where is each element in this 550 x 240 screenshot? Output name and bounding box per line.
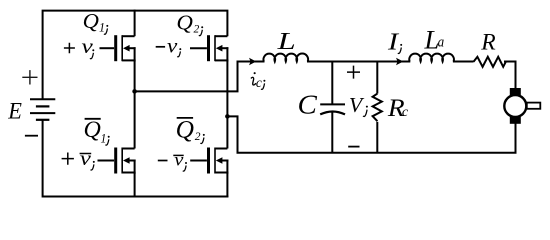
inductor La — [409, 54, 454, 62]
wire capacitor top lead — [331, 62, 333, 104]
wire battery bottom lead and bottom rail — [43, 120, 229, 196]
wire La to R — [453, 61, 474, 63]
resistor R zigzag — [474, 57, 506, 67]
svg-text:Q: Q — [83, 10, 100, 33]
svg-text:c: c — [402, 104, 408, 119]
svg-text:L: L — [423, 25, 439, 55]
label -v_j-bar minus sign — [158, 160, 168, 162]
svg-text:Q: Q — [176, 115, 194, 143]
battery E plate long — [30, 112, 55, 114]
inductor L — [263, 54, 308, 62]
label Q2j sub j — [201, 26, 203, 28]
wire output node A to filter input — [135, 62, 265, 92]
label v_j-bar j (Q1j-bar) — [93, 161, 95, 163]
label Q2j-bar overline — [177, 117, 193, 119]
motor M brush bottom — [510, 117, 521, 124]
wire Rc bottom lead — [376, 122, 378, 153]
capacitor C top plate — [320, 103, 345, 105]
label v_j-bar overline (Q2j-bar) — [173, 154, 183, 156]
transistor Q1j-bar — [98, 148, 136, 174]
wire Rc top lead — [376, 62, 378, 94]
node B junction dot (right leg) — [225, 114, 230, 119]
wire right leg midline (Q2j source to Q2j-bar drain) — [226, 60, 228, 148]
arrow I_j — [396, 58, 403, 65]
transistor Q2j — [190, 35, 228, 61]
label v_j-bar j (Q2j-bar) — [185, 162, 187, 164]
svg-text:L: L — [276, 29, 295, 55]
label Q1j sub j — [106, 25, 108, 27]
svg-text:v: v — [174, 151, 184, 171]
motor M shaft — [527, 103, 541, 109]
wire L to La — [307, 61, 410, 63]
svg-text:V: V — [349, 93, 365, 117]
label Q1j-bar sub j — [108, 136, 110, 138]
resistor Rc zigzag — [373, 94, 382, 122]
svg-text:E: E — [7, 98, 22, 123]
battery plus sign — [22, 70, 37, 84]
arrow i_cj — [249, 58, 256, 65]
wire top rail with Q2j drain and battery top lead — [43, 11, 228, 99]
label V_j plus sign — [347, 66, 360, 79]
svg-text:1: 1 — [99, 21, 105, 35]
svg-text:I: I — [387, 28, 400, 55]
battery E plate short — [36, 105, 50, 107]
wire motor bottom return rail to node B — [226, 116, 515, 152]
svg-text:2: 2 — [194, 23, 200, 35]
wire capacitor bottom lead — [331, 112, 333, 153]
battery E plate short bottom — [36, 119, 50, 121]
svg-text:v: v — [167, 35, 178, 57]
svg-text:2: 2 — [195, 131, 201, 143]
label i_cj sub j — [263, 80, 265, 82]
label v_j j (Q1j) — [92, 49, 94, 51]
label +v_j-bar plus sign — [62, 153, 74, 165]
motor M body — [504, 95, 526, 117]
label -v_j minus sign — [156, 46, 165, 48]
label +v_j plus sign — [64, 43, 75, 53]
svg-text:Q: Q — [83, 117, 100, 143]
battery E plate long top — [30, 98, 55, 100]
svg-text:c: c — [256, 75, 262, 90]
label v_j j (Q2j) — [179, 48, 181, 50]
wire R to motor top — [504, 62, 516, 90]
svg-text:a: a — [438, 34, 445, 50]
svg-text:v: v — [81, 36, 93, 58]
node A junction dot (left leg) — [132, 89, 137, 94]
label v_j-bar overline (Q1j-bar) — [80, 153, 92, 155]
svg-text:v: v — [80, 147, 92, 170]
label Q2j-bar sub j — [203, 134, 205, 136]
svg-text:Q: Q — [176, 11, 193, 34]
battery minus sign — [25, 135, 38, 137]
transistor Q1j — [100, 35, 136, 61]
svg-text:1: 1 — [101, 131, 107, 145]
label V_j sub j — [366, 106, 368, 108]
motor M brush top — [510, 88, 521, 95]
wire Q1j-bar source — [134, 173, 136, 198]
label Q1j-bar overline — [85, 118, 101, 120]
svg-text:C: C — [297, 90, 317, 120]
svg-text:R: R — [480, 30, 495, 56]
label I_j sub j — [400, 44, 402, 46]
wire left leg midline (Q1j source to Q1j-bar drain) — [134, 60, 136, 148]
wire Q2j-bar source — [226, 173, 228, 198]
transistor Q2j-bar — [190, 148, 228, 174]
label i_cj i — [254, 72, 256, 74]
label V_j minus sign — [348, 146, 359, 148]
wire Q1j drain — [134, 10, 136, 37]
capacitor C bottom plate curved — [320, 112, 345, 115]
